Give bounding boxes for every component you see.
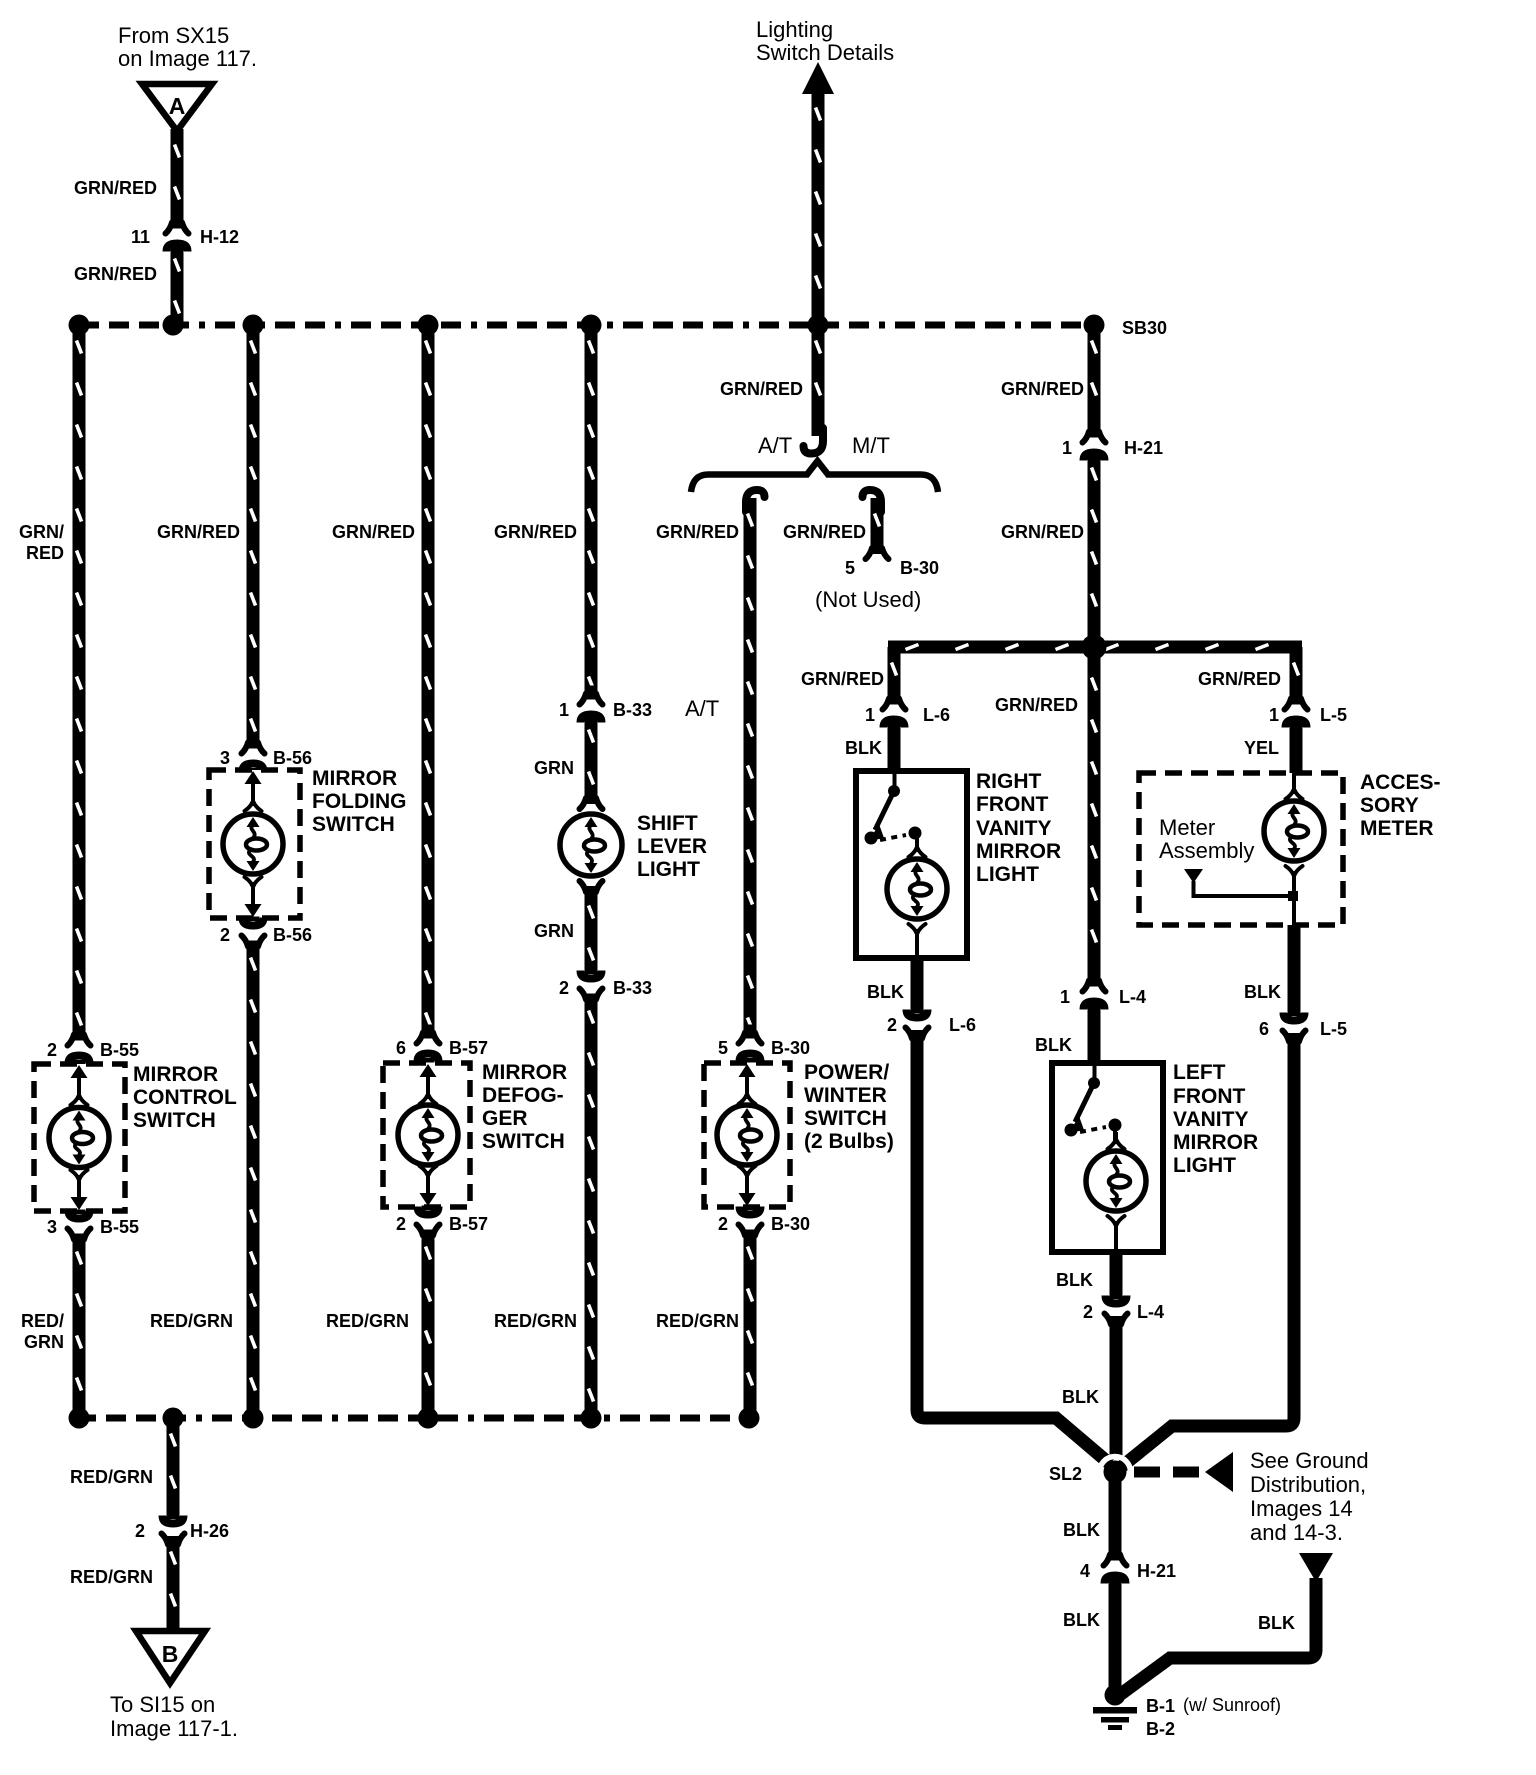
left vanity bulb lower pin — [1108, 1216, 1125, 1233]
svg-text:2: 2 — [47, 1040, 57, 1060]
wire GRN/RED right col upper — [1088, 325, 1101, 434]
power/winter switch bulb — [739, 1064, 756, 1077]
svg-text:Assembly: Assembly — [1159, 838, 1254, 863]
svg-text:B-57: B-57 — [449, 1214, 488, 1234]
svg-text:GRN/RED: GRN/RED — [656, 522, 739, 542]
svg-text:H-12: H-12 — [200, 227, 239, 247]
connector L-6 pin 2 — [903, 1009, 932, 1022]
mirror control switch box — [34, 1064, 125, 1211]
connector B-33 pin 2 — [577, 970, 606, 983]
svg-text:B-57: B-57 — [449, 1038, 488, 1058]
svg-text:L-4: L-4 — [1119, 987, 1146, 1007]
node bottom bus x428 — [418, 1408, 439, 1429]
node top bus x428 — [418, 315, 439, 336]
wire GRN/RED A/T branch — [744, 498, 757, 1035]
wire end hook — [804, 428, 824, 454]
mirror folding switch bulb — [245, 771, 262, 784]
svg-text:BLK: BLK — [867, 982, 904, 1002]
svg-text:Images 14: Images 14 — [1250, 1496, 1353, 1521]
svg-text:L-5: L-5 — [1320, 705, 1347, 725]
svg-text:B: B — [162, 1641, 179, 1667]
hook M/T branch — [863, 490, 882, 512]
wire — [1088, 983, 1101, 985]
splice SL2 — [1100, 1457, 1131, 1488]
connector B-56 pin 3 — [242, 735, 265, 754]
node bottom bus x749 — [739, 1408, 760, 1429]
svg-text:LIGHT: LIGHT — [637, 858, 700, 881]
svg-text:WINTER: WINTER — [804, 1084, 887, 1107]
svg-text:Switch Details: Switch Details — [756, 40, 894, 65]
left vanity lamp — [1086, 1151, 1146, 1211]
svg-text:GRN: GRN — [24, 1332, 64, 1352]
wire BLK to SL2 — [1110, 1316, 1123, 1456]
brace A/T M/T — [691, 461, 938, 492]
svg-text:11: 11 — [131, 227, 150, 247]
svg-text:SB30: SB30 — [1122, 318, 1167, 338]
svg-text:2: 2 — [887, 1015, 897, 1035]
svg-text:H-21: H-21 — [1137, 1561, 1176, 1581]
svg-text:5: 5 — [845, 558, 855, 578]
connector B-30 pin 2 — [736, 1206, 765, 1219]
svg-text:2: 2 — [135, 1521, 145, 1541]
svg-text:A/T: A/T — [685, 696, 719, 721]
svg-text:GRN/RED: GRN/RED — [74, 264, 157, 284]
shift lever light lamp — [560, 814, 622, 876]
wire BLK into left vanity — [1088, 1001, 1101, 1063]
svg-text:H-21: H-21 — [1124, 438, 1163, 458]
svg-text:and 14-3.: and 14-3. — [1250, 1520, 1343, 1545]
svg-text:1: 1 — [1062, 438, 1072, 458]
svg-text:BLK: BLK — [845, 738, 882, 758]
wire RED/GRN col2 — [247, 942, 260, 1418]
svg-text:B-33: B-33 — [613, 700, 652, 720]
shift lever light bottom fork — [580, 881, 603, 900]
mirror defogger switch bulb lamp — [398, 1105, 458, 1165]
svg-text:RED/GRN: RED/GRN — [494, 1311, 577, 1331]
connector L-4 pin 2 — [1102, 1295, 1131, 1308]
node top bus x591 — [581, 315, 602, 336]
mirror defogger switch bulb — [420, 1064, 437, 1077]
svg-text:1: 1 — [1269, 705, 1279, 725]
svg-text:LIGHT: LIGHT — [1173, 1154, 1236, 1177]
svg-text:B-55: B-55 — [100, 1217, 139, 1237]
svg-text:3: 3 — [220, 748, 230, 768]
svg-text:L-6: L-6 — [949, 1015, 976, 1035]
node top bus x818 — [808, 315, 829, 336]
svg-text:FRONT: FRONT — [976, 793, 1048, 816]
svg-text:GRN/RED: GRN/RED — [74, 178, 157, 198]
node bottom bus x253 — [243, 1408, 264, 1429]
svg-text:LEVER: LEVER — [637, 835, 707, 858]
see ground distribution arrow — [1134, 1467, 1204, 1478]
svg-text:GRN/: GRN/ — [19, 522, 64, 542]
svg-text:2: 2 — [559, 978, 569, 998]
svg-text:RED/GRN: RED/GRN — [150, 1311, 233, 1331]
svg-text:GRN/RED: GRN/RED — [783, 522, 866, 542]
node on GRN/RED distribution — [1082, 635, 1107, 660]
meter bulb lower pin — [1286, 866, 1303, 883]
connector H-26 pin 2 — [159, 1515, 188, 1528]
svg-text:5: 5 — [718, 1038, 728, 1058]
svg-text:BLK: BLK — [1056, 1270, 1093, 1290]
svg-text:Distribution,: Distribution, — [1250, 1472, 1366, 1497]
right vanity bulb lower pin — [909, 924, 926, 941]
wire BLK SL2 to H-21 — [1109, 1481, 1122, 1557]
connector H-21 pin 4 — [1104, 1547, 1127, 1566]
wire RED/GRN to H-26 — [167, 1418, 180, 1518]
svg-text:1: 1 — [559, 700, 569, 720]
svg-text:RED/GRN: RED/GRN — [70, 1467, 153, 1487]
svg-text:(w/ Sunroof): (w/ Sunroof) — [1183, 1695, 1281, 1715]
svg-text:BLK: BLK — [1035, 1035, 1072, 1055]
svg-text:BLK: BLK — [1063, 1610, 1100, 1630]
right vanity switch — [893, 771, 897, 787]
svg-text:RED: RED — [26, 543, 64, 563]
node bottom bus x79 — [69, 1408, 90, 1429]
bus bottom — [76, 1415, 750, 1422]
svg-text:METER: METER — [1360, 817, 1434, 840]
svg-text:FOLDING: FOLDING — [312, 790, 407, 813]
node top bus x1094 — [1084, 315, 1105, 336]
wire RED/GRN A/T branch — [744, 1231, 757, 1418]
wire GRN/RED drop to L-5 — [1290, 647, 1303, 701]
wire GRN/RED below bus — [812, 325, 825, 436]
svg-text:SWITCH: SWITCH — [133, 1109, 216, 1132]
mirror defogger switch box — [383, 1063, 470, 1207]
wire BLK below left vanity — [1110, 1252, 1123, 1298]
connector B-56 pin 2 — [239, 917, 268, 930]
connector B-30 pin 5 — [739, 1025, 762, 1044]
BLK wire to ground — [1121, 1578, 1316, 1694]
svg-text:L-4: L-4 — [1137, 1302, 1164, 1322]
wire GRN/RED horizontal distribution — [888, 641, 1302, 654]
wire RED/GRN to B — [167, 1536, 180, 1629]
svg-text:To SI15 on: To SI15 on — [110, 1692, 215, 1717]
svg-text:SHIFT: SHIFT — [637, 812, 698, 835]
accessory meter lamp — [1264, 801, 1324, 861]
mirror folding switch box — [209, 770, 300, 918]
connector L-6 pin 1 — [883, 691, 906, 710]
right vanity lamp — [887, 859, 947, 919]
svg-text:2: 2 — [220, 925, 230, 945]
svg-text:Lighting: Lighting — [756, 17, 833, 42]
right front vanity mirror light box — [856, 771, 967, 958]
hook A/T branch — [746, 490, 765, 512]
power/winter switch box — [704, 1063, 790, 1207]
wire GRN/RED right col — [1088, 452, 1101, 983]
svg-text:MIRROR: MIRROR — [133, 1063, 218, 1086]
svg-text:B-56: B-56 — [273, 925, 312, 945]
meter bulb top pin — [1292, 773, 1296, 788]
left vanity bulb top fork — [1108, 1132, 1125, 1149]
connector L-5 pin 6 — [1280, 1012, 1309, 1025]
svg-text:GRN/RED: GRN/RED — [1001, 379, 1084, 399]
wire GRN/RED drop to L-6 — [888, 647, 901, 701]
wire GRN/RED col3 — [422, 325, 435, 1035]
accessory meter box — [1139, 773, 1343, 925]
wire GRN lower — [585, 890, 598, 973]
wire GRN/RED to bus — [171, 243, 184, 325]
svg-text:GRN/RED: GRN/RED — [494, 522, 577, 542]
connector B-55 pin 2 — [68, 1027, 91, 1046]
svg-text:6: 6 — [1259, 1019, 1269, 1039]
svg-text:(2 Bulbs): (2 Bulbs) — [804, 1130, 894, 1153]
connector L-5 pin 1 — [1285, 691, 1308, 710]
svg-text:L-5: L-5 — [1320, 1019, 1347, 1039]
svg-text:BLK: BLK — [1062, 1387, 1099, 1407]
svg-text:B-56: B-56 — [273, 748, 312, 768]
wire GRN/RED col1 — [73, 325, 86, 1037]
svg-text:BLK: BLK — [1063, 1520, 1100, 1540]
svg-text:GER: GER — [482, 1107, 528, 1130]
svg-text:SL2: SL2 — [1049, 1464, 1082, 1484]
svg-text:GRN/RED: GRN/RED — [157, 522, 240, 542]
svg-text:H-26: H-26 — [190, 1521, 229, 1541]
wire BLK below meter — [1288, 925, 1301, 1015]
wire GRN/RED col2 — [247, 325, 260, 745]
wire RED/GRN col4 — [585, 995, 598, 1418]
mirror defogger switch bulb lower pin — [420, 1166, 437, 1183]
right vanity bulb top fork — [909, 840, 926, 857]
wire RED/GRN col3 — [422, 1231, 435, 1418]
svg-text:Image 117-1.: Image 117-1. — [110, 1716, 238, 1741]
svg-text:SORY: SORY — [1360, 794, 1419, 817]
svg-text:A: A — [169, 93, 186, 119]
svg-text:6: 6 — [396, 1038, 406, 1058]
wire GRN/RED col4 — [585, 325, 598, 696]
wire YEL into meter — [1290, 719, 1303, 773]
wire BLK into right vanity — [888, 719, 901, 771]
connector B-55 pin 3 — [65, 1210, 94, 1223]
svg-text:GRN/RED: GRN/RED — [332, 522, 415, 542]
svg-text:B-2: B-2 — [1146, 1719, 1175, 1739]
svg-text:SWITCH: SWITCH — [804, 1107, 887, 1130]
connector B-57 pin 2 — [414, 1206, 443, 1219]
meter internal ground arrow — [1184, 869, 1203, 883]
off-page connector A — [142, 84, 212, 131]
mirror control switch bulb lower pin — [71, 1170, 88, 1187]
svg-text:Meter: Meter — [1159, 815, 1215, 840]
node top bus x173 — [163, 315, 184, 336]
svg-text:YEL: YEL — [1244, 738, 1279, 758]
node top bus x253 — [243, 315, 264, 336]
power/winter switch bulb lamp — [717, 1105, 777, 1165]
svg-text:RED/GRN: RED/GRN — [656, 1311, 739, 1331]
svg-text:2: 2 — [396, 1214, 406, 1234]
mirror control switch bulb — [71, 1065, 88, 1078]
connector B-57 pin 6 — [417, 1025, 440, 1044]
svg-text:L-6: L-6 — [923, 705, 950, 725]
svg-text:B-30: B-30 — [900, 558, 939, 578]
svg-text:SWITCH: SWITCH — [312, 813, 395, 836]
svg-text:POWER/: POWER/ — [804, 1061, 889, 1084]
mirror folding switch bulb lower pin — [245, 877, 262, 894]
svg-text:MIRROR: MIRROR — [482, 1061, 567, 1084]
svg-text:LIGHT: LIGHT — [976, 863, 1039, 886]
bus SB30 top — [79, 322, 1094, 329]
svg-text:LEFT: LEFT — [1173, 1061, 1226, 1084]
svg-text:SWITCH: SWITCH — [482, 1130, 565, 1153]
svg-text:2: 2 — [718, 1214, 728, 1234]
wire BLK to ground — [1109, 1575, 1122, 1690]
svg-text:RED/GRN: RED/GRN — [326, 1311, 409, 1331]
wire BLK below right vanity — [911, 958, 924, 1012]
connector L-4 pin 1 — [1083, 973, 1106, 992]
svg-text:BLK: BLK — [1244, 982, 1281, 1002]
svg-text:M/T: M/T — [852, 433, 890, 458]
ground B-1/B-2 — [1105, 1685, 1126, 1706]
left front vanity mirror light box — [1052, 1063, 1163, 1252]
svg-text:VANITY: VANITY — [976, 817, 1051, 840]
connector B-33 pin 1 — [580, 686, 603, 705]
from ground distribution arrow — [1299, 1553, 1333, 1582]
svg-text:BLK: BLK — [1258, 1613, 1295, 1633]
svg-text:1: 1 — [865, 705, 875, 725]
svg-text:From SX15: From SX15 — [118, 23, 229, 48]
svg-text:DEFOG-: DEFOG- — [482, 1084, 564, 1107]
svg-text:B-33: B-33 — [613, 978, 652, 998]
svg-text:MIRROR: MIRROR — [312, 767, 397, 790]
wire GRN/RED up-arrow shaft — [812, 92, 825, 325]
wire GRN/RED from A — [171, 129, 184, 225]
svg-text:VANITY: VANITY — [1173, 1108, 1248, 1131]
mirror folding switch bulb lamp — [223, 814, 283, 874]
svg-text:4: 4 — [1080, 1561, 1090, 1581]
svg-text:on Image 117.: on Image 117. — [118, 46, 257, 71]
wire RED/GRN col1 — [73, 1236, 86, 1418]
svg-text:B-1: B-1 — [1146, 1696, 1175, 1716]
svg-text:MIRROR: MIRROR — [1173, 1131, 1258, 1154]
svg-text:B-30: B-30 — [771, 1038, 810, 1058]
BLK wire right vanity to SL2 — [917, 1030, 1110, 1464]
svg-text:2: 2 — [1083, 1302, 1093, 1322]
svg-text:B-55: B-55 — [100, 1040, 139, 1060]
svg-text:MIRROR: MIRROR — [976, 840, 1061, 863]
svg-text:1: 1 — [1060, 987, 1070, 1007]
wire GRN/RED M/T stub — [871, 498, 884, 548]
svg-text:GRN/RED: GRN/RED — [720, 379, 803, 399]
arrow to lighting switch details — [802, 62, 834, 94]
svg-text:B-30: B-30 — [771, 1214, 810, 1234]
svg-text:RED/GRN: RED/GRN — [70, 1567, 153, 1587]
svg-text:ACCES-: ACCES- — [1360, 771, 1441, 794]
BLK wire meter to SL2 — [1120, 1033, 1294, 1468]
svg-text:GRN: GRN — [534, 758, 574, 778]
svg-text:RED/: RED/ — [21, 1311, 64, 1331]
off-page connector B — [136, 1631, 205, 1683]
shift lever light top fork — [580, 790, 603, 809]
connector H-21 pin 1 — [1083, 424, 1106, 443]
svg-text:GRN/RED: GRN/RED — [1001, 522, 1084, 542]
svg-text:GRN: GRN — [534, 921, 574, 941]
power/winter switch bulb lower pin — [739, 1166, 756, 1183]
svg-text:3: 3 — [47, 1217, 57, 1237]
svg-text:GRN/RED: GRN/RED — [995, 695, 1078, 715]
svg-text:GRN/RED: GRN/RED — [801, 669, 884, 689]
svg-text:A/T: A/T — [758, 433, 792, 458]
svg-text:RIGHT: RIGHT — [976, 770, 1042, 793]
svg-text:See Ground: See Ground — [1250, 1448, 1369, 1473]
wire GRN upper — [585, 714, 598, 799]
connector B-30 pin 5 not used — [866, 540, 889, 559]
svg-text:(Not Used): (Not Used) — [815, 587, 921, 612]
svg-text:CONTROL: CONTROL — [133, 1086, 237, 1109]
svg-text:FRONT: FRONT — [1173, 1085, 1245, 1108]
connector H-12 pin 11 — [166, 215, 189, 234]
node bottom bus x591 — [581, 1408, 602, 1429]
mirror control switch bulb lamp — [49, 1108, 109, 1168]
node bottom bus x173 — [163, 1408, 184, 1429]
svg-text:GRN/RED: GRN/RED — [1198, 669, 1281, 689]
node top bus x79 — [69, 315, 90, 336]
left vanity switch — [1093, 1063, 1097, 1079]
